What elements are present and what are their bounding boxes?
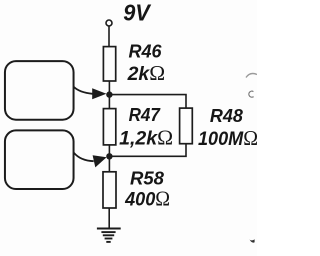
9V supply terminal [106,20,112,26]
svg-text:100MΩ: 100MΩ [198,126,257,150]
node A junction dot [106,91,112,97]
callout box 2 [5,130,74,189]
svg-text:R47: R47 [129,105,161,125]
svg-text:400Ω: 400Ω [124,186,170,210]
wire node A to R48 top [109,95,186,109]
cropped neighbour mark: faint small circle at right edge [249,91,254,97]
node B junction dot [106,153,112,159]
callout box 1 [5,61,74,120]
resistor R58 [103,172,116,208]
svg-text:1,2kΩ: 1,2kΩ [119,125,173,149]
cropped neighbour mark: faint squiggle at right edge [246,74,257,78]
wire R58 to ground [108,208,110,228]
wire R48 bottom to node B [109,144,186,157]
ground [97,229,121,242]
wire node B to R58 [108,156,110,172]
wire terminal to R46 [108,26,110,48]
callout arrow 2 [74,153,107,168]
resistor R48 [180,108,193,144]
cropped neighbour mark: small dark hook at right edge [250,239,255,242]
svg-text:R46: R46 [129,42,163,62]
svg-text:R48: R48 [210,106,243,126]
callout arrow 1 [74,87,107,99]
wire node A to R47 [108,95,110,109]
svg-text:2kΩ: 2kΩ [127,61,165,85]
wire R46 to node A [108,81,110,95]
resistor R47 [103,109,115,145]
svg-text:9V: 9V [123,0,151,25]
wire R47 to node B [108,145,110,157]
resistor R46 [103,47,115,81]
